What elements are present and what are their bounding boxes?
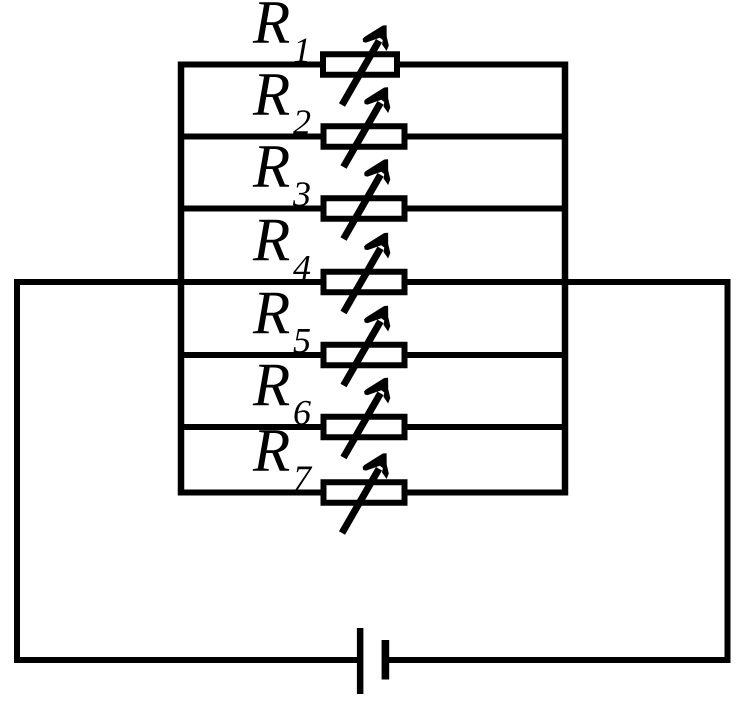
battery cell: long positive plate <box>357 628 364 694</box>
wire branch row 1 <box>181 62 565 68</box>
svg-text:5: 5 <box>293 321 311 361</box>
svg-text:R: R <box>252 418 290 485</box>
resistor R3 (variable rheostat) <box>324 159 405 239</box>
wire branch row 3 <box>181 206 565 212</box>
battery cell: short negative plate <box>382 640 390 680</box>
svg-text:R: R <box>252 0 290 57</box>
wire branch row 6 <box>181 424 565 430</box>
wire: outer loop right (to battery -) <box>389 282 728 660</box>
svg-text:R: R <box>252 207 290 274</box>
resistor R5 (variable rheostat) <box>324 306 405 386</box>
resistor R2 (variable rheostat) <box>324 87 405 167</box>
svg-text:R: R <box>252 280 290 347</box>
resistor R1 (variable rheostat) <box>323 25 397 105</box>
svg-text:2: 2 <box>293 102 311 142</box>
wire branch row 7 <box>181 490 565 496</box>
svg-text:1: 1 <box>293 30 311 70</box>
resistor R4 (variable rheostat) <box>324 233 405 313</box>
wire: right bus rail <box>562 62 569 496</box>
wire: left bus rail <box>178 62 185 496</box>
svg-text:7: 7 <box>293 458 313 498</box>
svg-text:R: R <box>252 134 290 201</box>
wire: outer loop left (to battery +) <box>17 282 358 660</box>
svg-text:3: 3 <box>292 174 311 214</box>
svg-text:4: 4 <box>293 248 311 288</box>
resistor R6 (variable rheostat) <box>324 378 405 458</box>
wire branch row 4 <box>181 279 565 285</box>
wire branch row 5 <box>181 352 565 358</box>
svg-text:R: R <box>252 62 290 129</box>
wire branch row 2 <box>181 134 565 140</box>
svg-text:6: 6 <box>293 393 311 433</box>
svg-text:R: R <box>252 352 290 419</box>
resistor R7 (variable rheostat) <box>324 453 405 533</box>
